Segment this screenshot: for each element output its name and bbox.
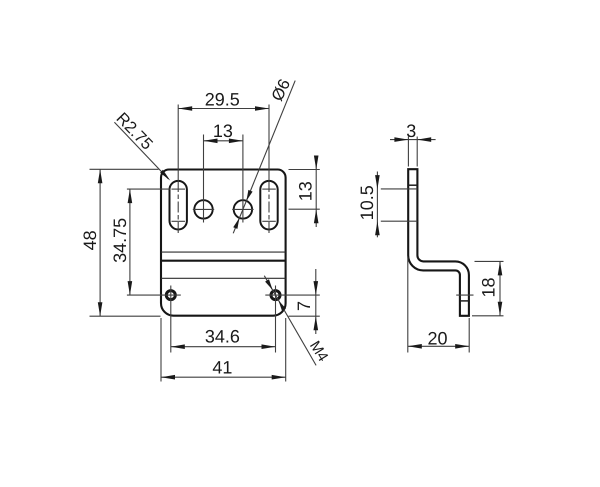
svg-text:7: 7: [294, 301, 314, 311]
dimension 18 extension top: [475, 260, 504, 262]
leader M4 arrow upper: [265, 279, 273, 290]
dimension 13 right extension top: [289, 169, 320, 171]
hole left centerline vertical: [203, 135, 205, 223]
dimension 18 extension bottom: [472, 315, 504, 317]
10.5 extension top (crosses strip): [381, 188, 418, 190]
dimension 20 line: [408, 345, 469, 347]
leader M4 arrow lower: [278, 300, 286, 311]
dimension 29.5 line: [178, 108, 269, 110]
side view bottom hole centerline: [456, 294, 473, 296]
leader R2.75 line: [114, 122, 168, 179]
side view outline (Z profile): [408, 169, 469, 316]
dimension 18 arrows: [498, 261, 503, 275]
bend line upper (thin): [161, 251, 286, 253]
slot left arc-center tick bottom: [172, 220, 186, 222]
bend edge middle (thick): [161, 260, 286, 262]
hole right Ø6: [234, 200, 252, 218]
dimension 3 arrows (outside): [394, 137, 408, 142]
hole right centerline horizontal: [232, 208, 253, 210]
dimension 29.5 arrows: [178, 106, 192, 111]
slot right centerline vertical: [268, 105, 270, 182]
svg-text:41: 41: [212, 357, 232, 377]
svg-text:34.75: 34.75: [110, 218, 130, 263]
leader R2.75 arrow: [160, 170, 170, 181]
bottom hole right M4: [271, 291, 280, 300]
slot right (stadium hole): [260, 181, 277, 230]
dimension 20 arrows: [408, 344, 422, 349]
svg-text:48: 48: [80, 230, 100, 250]
dimension 7 arrows (outside): [314, 281, 319, 295]
side view hole edge line in bottom strip: [460, 300, 469, 302]
dimension 34.75 arrows: [128, 189, 133, 203]
hole left Ø6: [194, 200, 212, 218]
svg-text:R2.75: R2.75: [112, 109, 156, 153]
svg-text:10.5: 10.5: [357, 185, 377, 220]
dimension 13 right line with tails: [315, 157, 317, 227]
hole left centerline horizontal: [193, 208, 214, 210]
dimension 34.75 line: [129, 189, 131, 295]
dimension 13 top line: [204, 140, 243, 142]
dimension 7 line with tails: [315, 269, 317, 334]
dimension 41 extensions: [160, 318, 162, 382]
dimension 7 extension bottom: [289, 315, 320, 317]
svg-text:34.6: 34.6: [205, 327, 240, 347]
svg-text:Ø6: Ø6: [268, 76, 294, 104]
svg-text:M4: M4: [306, 338, 331, 365]
dimension 34.6 arrows: [171, 344, 185, 349]
bottom hole left centerline horizontal + 34.75 bottom extension: [127, 294, 181, 296]
side view slot edge line in top strip: [408, 184, 417, 186]
svg-text:18: 18: [478, 277, 498, 297]
bottom hole left centerline vertical (extends to 34.6 ext): [170, 286, 172, 353]
dimension 3 extensions: [407, 137, 409, 167]
dimension 20 extension right: [468, 318, 470, 353]
svg-text:13: 13: [296, 181, 316, 201]
leader Ø6 arrow upper (points at hole edge): [246, 190, 252, 201]
dimension 34.75 extension top: [127, 188, 171, 190]
slot left (stadium hole): [170, 181, 187, 230]
dimension 18 line: [499, 261, 501, 315]
dimension 48 arrows: [98, 169, 103, 183]
dimension 48 extension bottom: [90, 315, 161, 317]
dimension 3 line with tails: [390, 139, 436, 141]
dimension 41 arrows: [161, 375, 175, 380]
slot right arc-center tick bottom: [262, 220, 276, 222]
slot right arc-center tick top: [262, 188, 276, 190]
dimension 48 extension top: [90, 168, 159, 170]
dimension 13 top arrows: [204, 139, 218, 144]
bend line lower (thin): [161, 277, 286, 279]
bottom hole right centerline vertical (extends to 34.6 ext): [275, 286, 277, 353]
leader Ø6 arrow lower (points at hole edge): [233, 218, 239, 229]
bottom hole left M4: [166, 291, 175, 300]
leader Ø6 line: [233, 81, 295, 234]
svg-text:29.5: 29.5: [205, 90, 240, 110]
dimension 20 extension left: [407, 257, 409, 353]
dimension 34.6 line: [171, 346, 276, 348]
slot left arc-center tick top: [172, 188, 186, 190]
dimension 13 right arrows (outside): [314, 156, 319, 170]
slot left centerline vertical: [177, 105, 179, 182]
svg-text:20: 20: [427, 328, 447, 348]
hole right centerline vertical: [242, 135, 244, 223]
svg-text:3: 3: [406, 121, 416, 141]
dimension 41 line: [161, 376, 286, 378]
10.5 extension bottom (crosses strip): [381, 220, 418, 222]
front view outline (bracket plate): [161, 170, 286, 316]
bottom hole right centerline horizontal + 7 top extension: [265, 294, 320, 296]
dimension 13 right extension bottom: [289, 208, 320, 210]
dimension 10.5 line with tails: [376, 172, 378, 238]
dimension 48 line: [99, 169, 101, 316]
svg-text:13: 13: [213, 121, 233, 141]
leader M4 line: [264, 276, 316, 366]
dimension 10.5 arrows (outside): [375, 175, 380, 189]
